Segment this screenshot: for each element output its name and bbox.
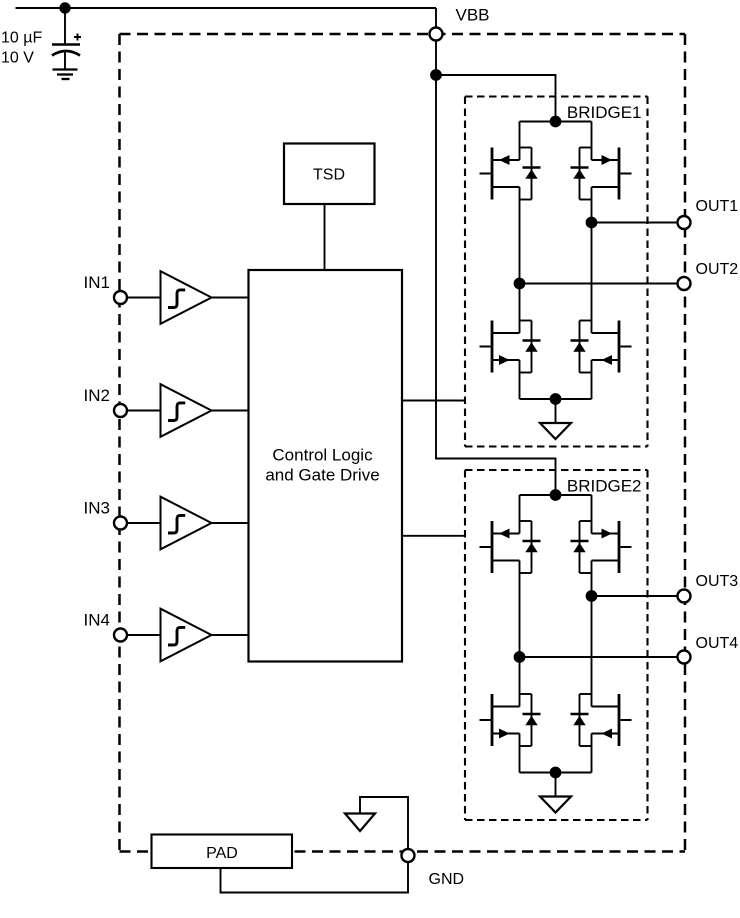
ground symbol BRIDGE2 — [540, 797, 571, 813]
wire BRIDGE1 ground stem — [555, 399, 557, 423]
hysteresis symbol inside buffer IN3 — [168, 515, 185, 533]
node BRIDGE2 supply dot — [550, 489, 562, 501]
pin GND terminal circle — [402, 849, 415, 862]
wire gate drive bus to BRIDGE2 — [402, 535, 466, 537]
wire IN1 pin to buffer — [127, 297, 161, 299]
node BRIDGE1 ground rail dot — [550, 393, 562, 405]
diode body of Q8 — [580, 693, 592, 695]
wire OUT4 — [520, 656, 679, 658]
transistor Q7 channel arrow — [499, 729, 510, 739]
diode body of Q5 — [520, 520, 532, 522]
transistor Q3 gate bar — [491, 321, 494, 373]
transistor Q2 drain tap — [592, 159, 620, 161]
hysteresis symbol inside buffer IN1 — [168, 290, 185, 308]
wire buffer IN2 output to control logic — [212, 410, 249, 412]
transistor Q4 drain tap — [592, 332, 620, 334]
transistor Q4 channel arrow — [602, 355, 613, 365]
transistor Q1 channel arrow — [499, 155, 510, 165]
block TSD — [284, 144, 375, 205]
transistor Q3 channel arrow — [499, 355, 510, 365]
svg-text:BRIDGE1: BRIDGE1 — [567, 103, 642, 122]
schmitt buffer IN4 — [161, 609, 212, 662]
pin VBB terminal circle — [430, 28, 443, 41]
transistor Q6 drain tap — [592, 533, 620, 535]
node BRIDGE2 ground rail dot — [550, 767, 562, 779]
pin IN3 terminal circle — [114, 517, 127, 530]
transistor Q4 gate lead — [620, 346, 631, 348]
BRIDGE1 dashed box — [465, 97, 648, 447]
node VBB junction dot — [430, 69, 442, 81]
transistor Q2 source tap — [592, 186, 620, 188]
svg-text:OUT4: OUT4 — [696, 635, 739, 652]
pin IN4 terminal circle — [114, 629, 127, 642]
block PAD — [152, 835, 293, 869]
pin IN2 terminal circle — [114, 404, 127, 417]
IC boundary dashed box — [120, 34, 686, 852]
pin IN1 terminal circle — [114, 291, 127, 304]
wire BRIDGE1 bottom rail — [520, 398, 592, 400]
capacitor C1 10uF lead — [64, 8, 66, 44]
diode body of Q2 — [580, 147, 592, 149]
hysteresis symbol inside buffer IN4 — [168, 627, 185, 645]
schmitt buffer IN3 — [161, 497, 212, 550]
transistor Q1 drain tap — [492, 159, 520, 161]
svg-text:IN1: IN1 — [84, 273, 110, 292]
diode body of Q1 — [520, 147, 532, 149]
svg-text:PAD: PAD — [206, 845, 238, 862]
wire BRIDGE2 left leg — [519, 495, 521, 534]
svg-text:OUT3: OUT3 — [696, 573, 739, 590]
transistor Q5 drain tap — [492, 533, 520, 535]
wire BRIDGE2 bottom rail — [520, 772, 592, 774]
transistor Q7 gate bar — [491, 694, 494, 746]
svg-text:BRIDGE2: BRIDGE2 — [567, 477, 642, 496]
wire BRIDGE1 top rail — [520, 121, 592, 123]
wire BRIDGE2 ground stem — [555, 773, 557, 797]
diode body of Q6 — [580, 520, 592, 522]
transistor Q3 source tap — [492, 359, 520, 361]
svg-text:and Gate Drive: and Gate Drive — [265, 466, 379, 485]
diode body of Q7 — [520, 693, 532, 695]
diode body of Q3 — [520, 320, 532, 322]
svg-text:10 V: 10 V — [1, 50, 34, 67]
wire PAD bottom loop to GND — [221, 856, 409, 893]
transistor Q8 gate lead — [620, 719, 631, 721]
svg-text:OUT1: OUT1 — [696, 198, 739, 215]
wire buffer IN1 output to control logic — [212, 297, 249, 299]
wire BRIDGE2 top rail — [520, 494, 592, 496]
capacitor C1 curved bottom plate — [52, 51, 80, 56]
block U1 Control Logic and Gate Drive — [249, 270, 403, 662]
svg-text:GND: GND — [429, 871, 465, 888]
wire IN4 pin to buffer — [127, 634, 161, 636]
BRIDGE2 dashed box — [465, 470, 648, 820]
wire BRIDGE1 left leg — [519, 122, 521, 161]
transistor Q4 source tap — [592, 359, 620, 361]
wire OUT3 — [592, 595, 679, 597]
node OUT3 dot — [586, 590, 598, 602]
wire gate drive bus to BRIDGE1 — [402, 400, 466, 402]
transistor Q6 channel arrow — [602, 529, 613, 539]
transistor Q5 gate lead — [480, 546, 491, 548]
transistor Q8 channel arrow — [602, 729, 613, 739]
wire GND upper branch to ground symbol — [360, 797, 408, 856]
transistor Q6 source tap — [592, 560, 620, 562]
transistor Q8 drain tap — [592, 706, 620, 708]
wire BRIDGE2 right leg — [591, 495, 593, 534]
wire IN2 pin to buffer — [127, 410, 161, 412]
schmitt buffer IN2 — [161, 384, 212, 437]
svg-text:OUT2: OUT2 — [696, 261, 739, 278]
wire TSD to control logic — [324, 204, 326, 270]
transistor Q2 gate bar — [618, 148, 621, 200]
transistor Q6 gate bar — [618, 521, 621, 573]
svg-text:Control Logic: Control Logic — [272, 446, 373, 465]
ground symbol near GND pin — [345, 814, 375, 832]
node BRIDGE1 supply dot — [550, 116, 562, 128]
transistor Q7 drain tap — [492, 706, 520, 708]
wire VBB node to bridges feed — [436, 75, 556, 122]
transistor Q5 source tap — [492, 560, 520, 562]
wire BRIDGE1 right leg — [591, 122, 593, 161]
pin OUT3 terminal circle — [678, 590, 691, 603]
transistor Q1 gate lead — [480, 173, 491, 175]
transistor Q1 gate bar — [491, 148, 494, 200]
wire buffer IN3 output to control logic — [212, 522, 249, 524]
hysteresis symbol inside buffer IN2 — [168, 403, 185, 421]
svg-text:VBB: VBB — [456, 6, 490, 25]
svg-text:TSD: TSD — [313, 167, 345, 184]
pin OUT4 terminal circle — [678, 651, 691, 664]
svg-text:IN3: IN3 — [84, 499, 110, 518]
wire buffer IN4 output to control logic — [212, 634, 249, 636]
wire OUT1 — [592, 222, 679, 224]
transistor Q8 source tap — [592, 733, 620, 735]
ground symbol BRIDGE1 — [540, 423, 571, 439]
capacitor C1 bottom lead — [64, 53, 66, 69]
node OUT4 dot — [514, 651, 526, 663]
transistor Q7 source tap — [492, 733, 520, 735]
wire VBB drop from rail — [435, 8, 437, 75]
transistor Q3 gate lead — [480, 346, 491, 348]
wire VM supply rail — [16, 7, 437, 9]
transistor Q5 channel arrow — [499, 529, 510, 539]
pin OUT1 terminal circle — [678, 216, 691, 229]
capacitor C1 top plate — [52, 43, 80, 46]
ground earth symbol below C1 — [53, 68, 78, 70]
transistor Q3 drain tap — [492, 332, 520, 334]
node OUT1 dot — [586, 217, 598, 229]
transistor Q5 gate bar — [491, 521, 494, 573]
transistor Q8 gate bar — [618, 694, 621, 746]
transistor Q2 channel arrow — [602, 155, 613, 165]
transistor Q4 gate bar — [618, 321, 621, 373]
transistor Q6 gate lead — [620, 546, 631, 548]
diode body of Q4 — [580, 320, 592, 322]
svg-text:IN4: IN4 — [84, 611, 110, 630]
wire OUT2 — [520, 283, 679, 285]
node junction dot at capacitor tap — [59, 2, 70, 13]
wire VBB vertical drop to bridge2 — [436, 75, 556, 495]
transistor Q7 gate lead — [480, 719, 491, 721]
pin OUT2 terminal circle — [678, 277, 691, 290]
svg-text:IN2: IN2 — [84, 386, 110, 405]
schmitt buffer IN1 — [161, 271, 212, 324]
svg-text:10 µF: 10 µF — [1, 30, 42, 47]
node OUT2 dot — [514, 278, 526, 290]
capacitor C1 polarity + sign — [74, 36, 81, 38]
wire IN3 pin to buffer — [127, 522, 161, 524]
transistor Q1 source tap — [492, 186, 520, 188]
transistor Q2 gate lead — [620, 173, 631, 175]
